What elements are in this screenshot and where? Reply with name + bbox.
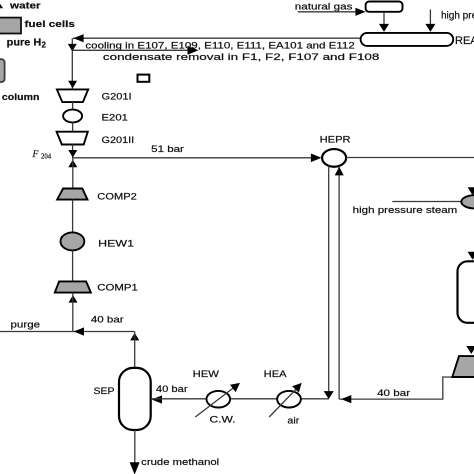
svg-text:G201I: G201I: [102, 91, 132, 101]
arrowhead left on purge line: [74, 327, 84, 335]
svg-text:natural gas: natural gas: [295, 1, 353, 11]
arrowhead down mid: [68, 44, 77, 52]
turbine G201II: [57, 132, 88, 145]
svg-text:HEW: HEW: [193, 369, 220, 379]
wire: 51 bar line from junction to HEPR: [72, 157, 312, 159]
wire high pressure steam line: [392, 201, 463, 203]
arrowhead down into G201I: [68, 81, 77, 89]
svg-text:F: F: [32, 150, 39, 160]
svg-text:COMP1: COMP1: [97, 282, 138, 293]
compressor COMP2: [57, 189, 87, 200]
svg-text:2: 2: [42, 41, 47, 50]
heat exchanger HEW1: [61, 232, 85, 250]
wire HEW1 to COMP1: [72, 250, 74, 281]
svg-text:column: column: [2, 92, 40, 103]
wire natural gas feed arrow: [298, 11, 356, 13]
arrowhead left on return line: [341, 395, 351, 403]
svg-text:40 bar: 40 bar: [91, 315, 124, 325]
wire cooled-gas line from junction to SEP: [152, 398, 329, 400]
arrowhead right on branch line: [188, 46, 199, 55]
arrowhead down at junction: [68, 150, 77, 158]
wire HEA diagonal air line: [269, 389, 296, 417]
wire COMP1 down to purge line: [72, 293, 74, 332]
svg-text:40 bar: 40 bar: [377, 388, 410, 398]
svg-text:water: water: [9, 1, 41, 11]
svg-text:high pressure: high pressure: [441, 10, 474, 21]
arrowhead left into SEP: [152, 395, 162, 403]
legend column symbol (gray rounded, cut at left edge): [0, 59, 5, 82]
svg-text:REACTOR: REACTOR: [455, 35, 474, 47]
svg-text:fuel cells: fuel cells: [25, 19, 76, 30]
wire HEPR downflow line: [328, 166, 330, 399]
wire HEW diagonal cooling water line: [195, 387, 234, 417]
svg-text:COMP2: COMP2: [97, 192, 137, 203]
arrowhead right into HEPR: [311, 154, 322, 163]
svg-text:HEA: HEA: [264, 369, 288, 379]
arrowhead right into NG box: [355, 8, 365, 16]
svg-text:C.W.: C.W.: [210, 415, 236, 425]
svg-text:G201II: G201II: [102, 135, 135, 145]
vessel right (cut at right edge): [458, 261, 474, 323]
svg-text:51 bar: 51 bar: [151, 144, 184, 154]
wire high pressure feed line: [429, 10, 431, 26]
wire SEP riser: [134, 332, 136, 369]
wire right 40-bar return line: [339, 377, 474, 399]
wire: main vertical line at x=72.3 top section: [71, 38, 73, 89]
arrowhead down into reactor from NG: [379, 24, 389, 32]
svg-text:HEW1: HEW1: [98, 238, 134, 249]
svg-text:HEPR: HEPR: [320, 134, 351, 144]
legend water symbol (triangle, cut at left edge): [0, 3, 3, 9]
svg-text:204: 204: [41, 153, 52, 160]
mixer HEPR: [322, 149, 346, 167]
separator SEP vessel: [119, 368, 151, 430]
compressor right (cut at right edge): [452, 356, 474, 377]
arrowhead up into HEPR bottom: [335, 167, 344, 176]
wire connector G201I to E201: [72, 102, 74, 110]
wire G201II down to junction: [72, 145, 74, 158]
wire SEP bottom outlet: [134, 430, 136, 466]
arrowhead down into right vessel: [468, 252, 474, 260]
arrowhead down crude methanol: [130, 462, 140, 474]
heat exchanger HEA: [277, 391, 301, 408]
wire HEPR outlet right: [346, 157, 474, 159]
arrowhead down into reactor from high pressure: [425, 24, 435, 32]
wire junction down to COMP2: [72, 158, 74, 189]
heat exchanger E201: [63, 110, 82, 123]
arrowhead down into steam generator: [468, 187, 474, 195]
wire COMP2 to HEW1: [72, 200, 74, 233]
feed box natural gas: [366, 2, 403, 12]
heat exchanger HEW: [207, 391, 231, 408]
svg-text:pure H: pure H: [7, 38, 42, 49]
svg-text:condensate removal in F1, F2,: condensate removal in F1, F2, F107 and F…: [103, 52, 380, 62]
svg-text:cooling in E107, E109, E110, E: cooling in E107, E109, E110, E111, EA101…: [85, 41, 354, 51]
compressor COMP1: [55, 281, 91, 292]
steam generator ellipse (cut at right edge): [461, 195, 474, 208]
svg-text:high pressure steam: high pressure steam: [353, 205, 458, 215]
wire NG box to reactor: [383, 12, 385, 25]
turbine G201I: [57, 89, 88, 102]
svg-text:purge: purge: [11, 320, 41, 330]
wire connector E201 to G201II: [72, 122, 74, 132]
arrowhead HEA diagonal: [292, 383, 302, 393]
legend small white box: [138, 75, 150, 82]
wire: cooling return line from reactor to main column line: [73, 37, 361, 39]
svg-text:air: air: [287, 415, 299, 425]
svg-text:E201: E201: [102, 112, 128, 122]
arrowhead left on cooling line: [73, 34, 83, 42]
wire: branch line to the right with arrow: [72, 49, 188, 51]
wire purge line: [0, 331, 135, 333]
svg-text:40 bar: 40 bar: [156, 384, 188, 394]
arrowhead up below junction: [68, 160, 77, 168]
svg-text:SEP: SEP: [94, 386, 115, 397]
wire HEPR upflow line: [338, 167, 340, 399]
arrowhead HEW diagonal: [230, 383, 240, 392]
arrowhead down into right compressor: [466, 346, 474, 354]
arrowhead up into COMP1: [69, 295, 78, 303]
arrowhead down at bottom of downflow line: [324, 391, 334, 399]
legend fuel-cell box (cut at left edge): [0, 18, 21, 34]
arrowhead up at SEP riser junction: [130, 333, 139, 341]
svg-text:crude methanol: crude methanol: [141, 457, 219, 468]
reactor vessel REACTOR: [361, 33, 454, 46]
